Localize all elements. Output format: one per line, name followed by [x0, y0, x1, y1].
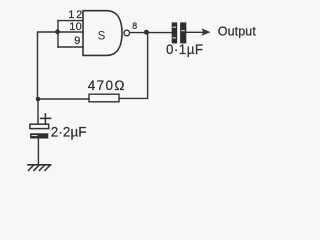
- wire capacitor to output arrow: [186, 31, 203, 33]
- wire input tie bracket: [57, 21, 59, 47]
- NAND gate S (pins 12,10,9 in / 8 out): [83, 11, 122, 56]
- plus polarity mark for C2: [41, 114, 51, 123]
- wire resistor to output node: [119, 32, 148, 98]
- gate output inversion bubble: [124, 30, 130, 36]
- wire C2 to ground: [37, 139, 39, 165]
- ground: [28, 165, 51, 171]
- svg-text:9: 9: [74, 35, 80, 47]
- svg-text:10: 10: [69, 21, 82, 33]
- svg-text:470Ω: 470Ω: [88, 78, 126, 93]
- wire feedback to inputs: [38, 32, 58, 99]
- svg-text:S: S: [98, 30, 106, 42]
- svg-text:8: 8: [132, 21, 137, 31]
- svg-text:0·1µF: 0·1µF: [166, 42, 204, 57]
- node B feedback junction: [36, 97, 41, 102]
- wire pin 10 input: [58, 31, 83, 33]
- svg-text:2·2µF: 2·2µF: [51, 125, 87, 140]
- capacitor C1 0.1uF: [172, 22, 187, 43]
- capacitor C2 2.2uF electrolytic: [30, 124, 49, 138]
- node A input junction: [55, 29, 60, 34]
- svg-text:12: 12: [68, 9, 84, 21]
- wire pin 9 input: [58, 46, 83, 48]
- wire node B down to C2: [37, 99, 39, 124]
- output arrowhead: [201, 28, 210, 35]
- svg-text:Output: Output: [218, 25, 257, 39]
- wire pin 12 input: [58, 20, 83, 22]
- resistor R1 470 ohm body: [89, 94, 119, 102]
- wire gate output pin 8: [130, 32, 172, 34]
- wire node B to resistor: [38, 98, 89, 100]
- node C output junction: [144, 30, 149, 35]
